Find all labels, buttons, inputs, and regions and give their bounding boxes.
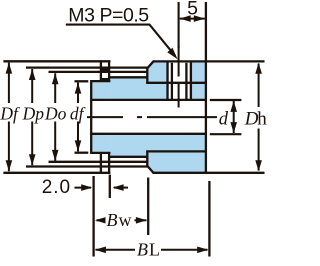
svg-text:5: 5 — [187, 0, 198, 19]
svg-text:df: df — [70, 104, 86, 124]
svg-text:B: B — [107, 210, 118, 230]
svg-text:w: w — [119, 210, 132, 230]
svg-text:Do: Do — [44, 104, 67, 124]
svg-text:Df: Df — [0, 104, 20, 124]
svg-text:Dp: Dp — [22, 104, 45, 124]
svg-text:M3 P=0.5: M3 P=0.5 — [68, 5, 149, 27]
svg-text:h: h — [257, 109, 267, 130]
svg-text:2.0: 2.0 — [42, 177, 71, 198]
svg-text:B: B — [137, 239, 148, 259]
svg-text:d: d — [219, 109, 229, 129]
svg-text:L: L — [149, 239, 160, 259]
